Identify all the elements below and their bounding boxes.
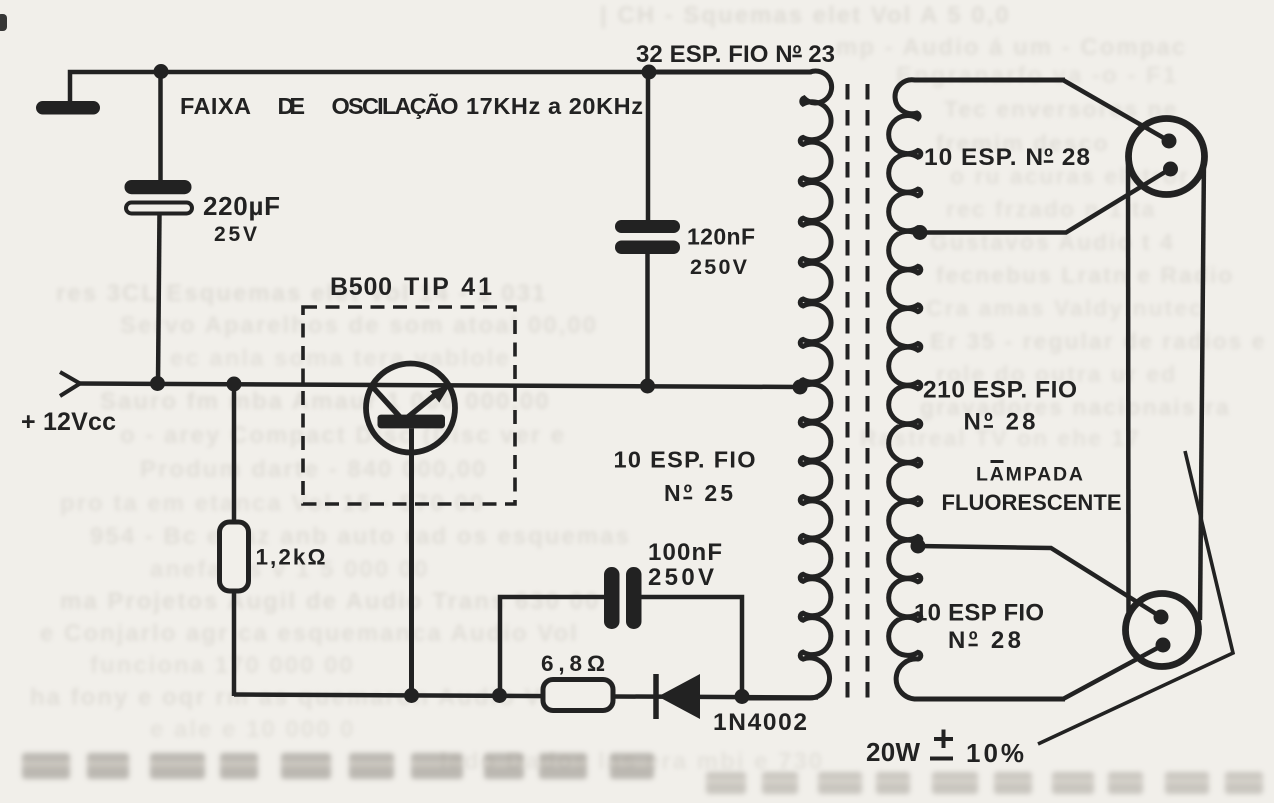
lamp bottom pin 2 bbox=[1156, 638, 1171, 653]
wire +12Vcc input with arrow bbox=[60, 372, 801, 396]
wire secondary bottom to lamp bbox=[1063, 645, 1163, 699]
node R1 top junction bbox=[227, 377, 242, 392]
label 120nF bbox=[687, 224, 755, 250]
label tolerance label bbox=[966, 738, 1024, 768]
label secondary mid label bbox=[923, 377, 1077, 404]
svg-text:210 ESP. FIO: 210 ESP. FIO bbox=[923, 377, 1077, 404]
label transistor label a bbox=[330, 273, 392, 301]
label transistor label b bbox=[404, 273, 492, 301]
diode D1 1N4002 cathode bar bbox=[653, 674, 659, 719]
node primary tap junction bbox=[793, 380, 808, 395]
lamp tube left side bbox=[1126, 158, 1131, 612]
macron bar over A in LAMPADA bbox=[991, 460, 1004, 463]
transformer core dashed line right bbox=[866, 84, 870, 703]
label snubber cap voltage bbox=[648, 564, 714, 591]
svg-text:120nF: 120nF bbox=[687, 224, 755, 250]
svg-text:17KHz a 20KHz: 17KHz a 20KHz bbox=[466, 93, 643, 119]
capacitor C2 120nF bottom plate bbox=[615, 241, 680, 255]
transformer T1 primary winding 32+10 ESP bbox=[649, 71, 832, 698]
lamp bottom end circle bbox=[1126, 594, 1199, 667]
svg-text:10 ESP. FIO: 10 ESP. FIO bbox=[614, 447, 756, 473]
node secondary tap2 bbox=[911, 539, 926, 554]
wire snubber right branch bbox=[640, 597, 742, 696]
capacitor C1 220uF bottom plate bbox=[126, 203, 192, 214]
wire secondary top to lamp bbox=[1063, 80, 1169, 141]
transistor Q1 collector stroke bbox=[370, 384, 400, 417]
svg-text:250V: 250V bbox=[648, 564, 714, 591]
label 100nF bbox=[648, 539, 722, 566]
label secondary mid label 2 bbox=[964, 409, 1036, 436]
svg-text:+ 12Vcc: + 12Vcc bbox=[21, 408, 116, 436]
transistor Q1 emitter with arrow bbox=[408, 385, 451, 418]
wire secondary tap2 to lamp bbox=[918, 546, 1161, 617]
svg-text:Nº 28: Nº 28 bbox=[964, 409, 1036, 436]
wire 220uF branch lower bbox=[158, 212, 160, 384]
node snubber right junction bbox=[735, 689, 750, 704]
wire 220uF branch upper bbox=[158, 70, 163, 182]
svg-text:20W: 20W bbox=[866, 737, 920, 767]
lamp top pin 1 bbox=[1162, 134, 1177, 149]
svg-text:10 ESP FIO: 10 ESP FIO bbox=[914, 600, 1044, 627]
svg-text:FLUORESCENTE: FLUORESCENTE bbox=[942, 490, 1122, 515]
svg-text:Nº 25: Nº 25 bbox=[664, 480, 733, 506]
label plus-minus symbol bbox=[930, 730, 953, 759]
svg-text:OSCILAÇÃO: OSCILAÇÃO bbox=[332, 92, 459, 119]
svg-text:TIP 41: TIP 41 bbox=[404, 273, 492, 301]
lamp tube right side bbox=[1200, 157, 1204, 620]
ordinal underline marks for No. labels bbox=[683, 56, 1053, 645]
svg-text:Nº 28: Nº 28 bbox=[948, 627, 1021, 654]
node top-left junction bbox=[154, 64, 169, 79]
node 220uF bottom junction bbox=[150, 376, 165, 391]
label oscillation range word1 bbox=[180, 93, 251, 119]
transformer T1 secondary winding bbox=[889, 80, 1065, 699]
callout line to 20W label bbox=[1038, 451, 1233, 744]
svg-text:B500: B500 bbox=[330, 273, 392, 301]
wire snubber left branch bbox=[500, 597, 605, 695]
svg-text:1,2kΩ: 1,2kΩ bbox=[256, 545, 326, 570]
transistor Q1 base bar bbox=[378, 415, 446, 429]
wire 120nF branch upper bbox=[646, 72, 651, 222]
wire bottom rail bbox=[234, 695, 818, 698]
svg-text:LAMPADA: LAMPADA bbox=[976, 464, 1083, 486]
label 1,2kΩ bbox=[256, 545, 326, 570]
label 250V bbox=[690, 255, 748, 279]
svg-text:220µF: 220µF bbox=[203, 191, 280, 221]
label 220µF bbox=[203, 191, 280, 221]
svg-text:6,8Ω: 6,8Ω bbox=[541, 651, 605, 676]
transistor Q1 dashed outline box bbox=[303, 307, 515, 504]
label 6,8Ω bbox=[541, 651, 605, 676]
label primary lower label 2 bbox=[664, 480, 733, 506]
label lamp label 1 bbox=[976, 464, 1083, 486]
wire transistor base lead bbox=[409, 428, 414, 696]
label oscillation range word3 bbox=[332, 92, 459, 119]
svg-text:1N4002: 1N4002 bbox=[713, 709, 807, 736]
svg-text:25V: 25V bbox=[214, 223, 257, 246]
capacitor C2 120nF top plate bbox=[615, 220, 680, 233]
label secondary top label bbox=[924, 144, 1090, 171]
label primary upper label bbox=[636, 41, 835, 68]
node secondary tap1 bbox=[913, 225, 928, 240]
node base bottom junction bbox=[404, 688, 419, 703]
node snubber left junction bbox=[492, 688, 507, 703]
wire top rail (V+ to transformer top) bbox=[70, 72, 812, 102]
svg-text:DE: DE bbox=[278, 93, 306, 119]
label power label bbox=[866, 737, 920, 767]
label 1N4002 bbox=[713, 709, 807, 736]
label oscillation range word2 bbox=[278, 93, 306, 119]
capacitor C3 100nF left plate bbox=[604, 567, 620, 629]
wire 1.2k branch bbox=[232, 385, 237, 696]
lamp bottom pin 1 bbox=[1154, 610, 1169, 625]
label secondary bottom label bbox=[914, 600, 1044, 627]
label 25V bbox=[214, 223, 257, 246]
svg-text:32 ESP. FIO Nº 23: 32 ESP. FIO Nº 23 bbox=[636, 41, 835, 68]
resistor R2 6.8ohm body bbox=[543, 680, 613, 711]
svg-text:10%: 10% bbox=[966, 738, 1024, 768]
svg-text:FAIXA: FAIXA bbox=[180, 93, 251, 119]
label supply label bbox=[21, 408, 116, 436]
lamp top end circle bbox=[1129, 119, 1205, 195]
resistor R1 1.2k body bbox=[220, 522, 249, 591]
node 120nF bottom junction bbox=[640, 379, 655, 394]
lamp top pin 2 bbox=[1163, 162, 1178, 177]
label oscillation range word4 bbox=[466, 93, 643, 119]
svg-text:100nF: 100nF bbox=[648, 539, 722, 566]
stray ink mark left edge bbox=[0, 14, 7, 31]
wire 120nF branch lower bbox=[645, 252, 650, 386]
transistor Q1 circle bbox=[366, 364, 455, 453]
svg-text:250V: 250V bbox=[690, 255, 748, 279]
capacitor C3 100nF right plate bbox=[626, 567, 642, 629]
label lamp label 2 bbox=[942, 490, 1122, 515]
diode D1 1N4002 triangle bbox=[658, 674, 700, 719]
node 120nF top junction bbox=[642, 65, 657, 80]
transformer core dashed line left bbox=[846, 84, 850, 703]
capacitor C1 220uF top plate bbox=[125, 180, 192, 194]
svg-text:10 ESP. Nº 28: 10 ESP. Nº 28 bbox=[924, 144, 1090, 171]
label primary lower label bbox=[614, 447, 756, 473]
wire secondary tap1 to lamp bbox=[920, 169, 1170, 233]
label secondary bottom label 2 bbox=[948, 627, 1021, 654]
battery bar (supply terminal) bbox=[36, 101, 100, 115]
